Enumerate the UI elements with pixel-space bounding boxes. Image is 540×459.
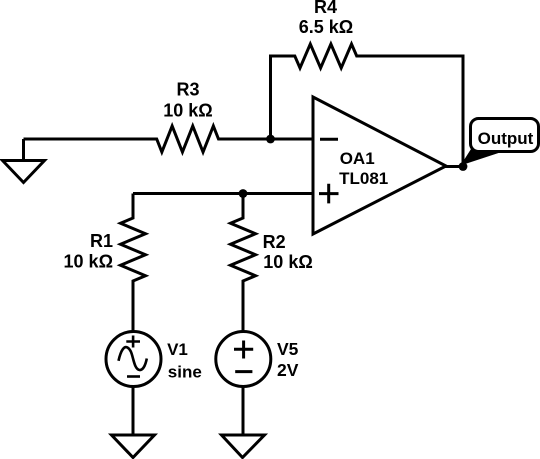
svg-text:Output: Output (478, 129, 534, 148)
svg-text:6.5 kΩ: 6.5 kΩ (299, 17, 353, 37)
svg-text:TL081: TL081 (339, 169, 388, 188)
svg-text:R3: R3 (176, 80, 199, 100)
svg-text:10 kΩ: 10 kΩ (64, 252, 113, 272)
svg-text:R4: R4 (314, 0, 337, 17)
svg-text:V5: V5 (277, 339, 299, 359)
svg-text:OA1: OA1 (340, 149, 375, 168)
svg-text:10 kΩ: 10 kΩ (263, 252, 312, 272)
svg-text:R2: R2 (263, 232, 286, 252)
svg-text:10 kΩ: 10 kΩ (163, 101, 212, 121)
svg-text:R1: R1 (90, 231, 113, 251)
svg-text:sine: sine (168, 363, 202, 382)
svg-text:V1: V1 (167, 340, 188, 359)
svg-text:2V: 2V (277, 360, 299, 380)
